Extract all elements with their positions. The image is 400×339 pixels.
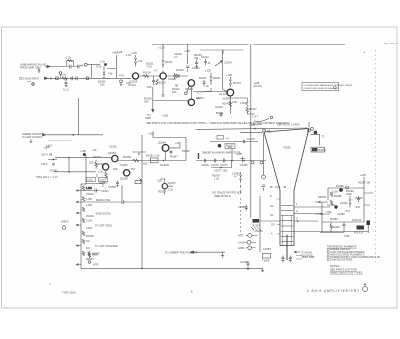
capacitor C21 [108,181,119,190]
small mark [364,51,366,55]
svg-text:SEE PARTS LIST FOR SEMICONDUCT: SEE PARTS LIST FOR SEMICONDUCTOR TYPES —… [146,121,290,125]
wire Q5 emitter down [229,96,231,114]
resistor R21 [133,159,139,162]
svg-text:C1040: C1040 [224,61,232,65]
ground [30,140,33,143]
svg-text:182: 182 [143,162,148,166]
misc label clutter crt [255,202,298,251]
wire rail dashes right [384,43,398,45]
wire Q5 branch right [230,98,247,101]
svg-text:R1080: R1080 [255,229,263,233]
svg-text:C1069: C1069 [201,163,209,167]
svg-text:C1022: C1022 [86,192,94,196]
diode CR2 [176,74,179,78]
svg-text:+105: +105 [275,185,281,189]
pin 1 [246,234,252,238]
svg-text:4C 91A: 4C 91A [219,92,228,96]
wire faint [48,139,71,141]
transistor Q6 [108,151,118,162]
small dot [50,284,51,285]
capacitor C30 [262,185,265,191]
svg-text:+225: +225 [117,50,123,54]
ground [38,69,41,73]
svg-text:1M: 1M [86,246,90,250]
svg-text:D1086: D1086 [336,184,344,188]
capacitor C22 [170,150,179,159]
svg-text:Z AXIS AMPLIFIER/CRT: Z AXIS AMPLIFIER/CRT [307,289,360,293]
wire neck right outputs [294,207,330,221]
svg-text:C1055: C1055 [108,185,116,189]
variable cap arrow [215,61,232,67]
resistor R2 bypass loop [66,56,73,67]
svg-text:R1089: R1089 [330,217,338,221]
pin labels [238,234,245,251]
svg-text:4.7k: 4.7k [119,74,125,78]
svg-text:NOTES:: NOTES: [330,264,340,268]
svg-text:1.2k: 1.2k [100,60,106,64]
node UNBLANKING PULSE input label [20,63,46,70]
resistor R22 [99,170,107,185]
wire stage1 vert [112,51,119,79]
resistor R41 above rail [88,251,100,263]
svg-text:C1071: C1071 [220,163,228,167]
focus box dark [354,226,364,235]
svg-text:Q1052: Q1052 [108,151,116,155]
svg-text:L1047: L1047 [240,101,248,105]
wire rail drop x163 [162,44,164,58]
node junction [297,220,299,222]
wire sub rail [200,49,244,51]
svg-text:4.7: 4.7 [234,175,238,179]
wire vert x153 upper [145,87,154,120]
wire main divider vert [80,184,82,268]
svg-text:4.7: 4.7 [174,55,178,59]
svg-text:NO TRACE ROTATE ADJ: NO TRACE ROTATE ADJ [212,191,242,195]
svg-text:SEMICONDUCTOR TYPES: SEMICONDUCTOR TYPES [330,271,363,275]
transistor Q5 [223,89,234,100]
node TP stage1 [120,80,131,86]
node dot cluster [46,148,57,166]
svg-text:GEOM: GEOM [318,195,326,199]
svg-text:C1085: C1085 [238,205,246,209]
capacitor C2 [78,65,79,69]
node junction [141,268,143,270]
wire lower seg [212,161,232,181]
wire geom long [293,231,368,233]
transistor Q3 [185,80,195,91]
svg-text:MOD 128F: MOD 128F [302,255,315,259]
wire Q10 leads [160,179,173,195]
node +125 label [226,73,232,77]
wire Q4 out right [196,123,308,129]
svg-text:FROM SWP GEN: FROM SWP GEN [20,66,41,70]
wire funnel left drop [263,134,265,176]
svg-text:CONDITIONS GIVEN ON DIAGRAM: CONDITIONS GIVEN ON DIAGRAM [304,87,338,90]
svg-text:GRID: GRID [238,246,245,250]
resistor R10 [134,55,143,67]
wire [139,75,160,77]
neck pin ticks [271,199,280,236]
capacitor C42 [244,137,256,144]
socket shield hatch [251,227,260,231]
wire x220 vert [223,50,227,92]
list items [330,247,381,261]
svg-text:C1059: C1059 [240,260,248,264]
node Z AXIS INPUT label [23,76,40,80]
svg-text:-1950 (DCPL): -1950 (DCPL) [95,212,111,216]
svg-text:4.7: 4.7 [226,137,230,141]
svg-text:G1: G1 [270,213,274,217]
resistor R25 boxed label [225,144,235,150]
svg-text:R1041: R1041 [213,76,221,80]
svg-text:R1053: R1053 [93,155,101,159]
svg-text:Q1064: Q1064 [158,141,166,145]
svg-text:R1079: R1079 [253,224,261,228]
resistor R23 [89,160,97,169]
svg-text:C1091: C1091 [340,201,348,205]
wire x69 link [68,157,70,173]
node blob right [314,131,318,135]
node +225 top [358,173,370,188]
node CRT label [283,146,291,150]
capacitor C40 [240,260,250,266]
pin 3 [246,246,252,250]
resistor RD5 [82,231,84,236]
stub wire y152 [132,152,146,155]
wire box links [86,174,107,190]
svg-text:R1045: R1045 [222,102,230,106]
pin 2 [246,240,251,244]
capacitor C11 [152,76,155,85]
dotted separator [375,50,377,265]
svg-text:GAIN ADJUSTERS: GAIN ADJUSTERS [330,258,353,262]
wire +225 row2 [148,132,186,161]
node tick [50,77,52,80]
svg-text:K: K [271,232,273,236]
svg-text:(SEE NOTE 4): (SEE NOTE 4) [214,194,231,198]
svg-text:B1059: B1059 [92,252,100,256]
svg-text:R1047: R1047 [88,180,95,182]
wire +225V rail [152,43,345,45]
svg-text:220k: 220k [346,192,352,196]
notes text [330,264,363,275]
graticule box [311,147,327,152]
wire rail drop x223 [222,50,224,54]
svg-text:R1061 1.2k: R1061 1.2k [146,154,160,158]
svg-text:+125: +125 [131,51,137,55]
SECTION: row2 long text [146,121,290,125]
wire row2 bus [118,160,186,162]
node TP5 [262,175,266,179]
svg-text:910: 910 [113,167,118,171]
svg-text:CATH: CATH [238,240,245,244]
node TP7 [62,226,66,230]
top boxes [87,178,108,182]
tap1 branch [81,189,109,194]
svg-text:Q1056: Q1056 [120,177,128,181]
svg-text:R1065: R1065 [182,149,190,153]
reference numbers heading [327,244,357,248]
ground [246,266,249,269]
wire vert x78 [77,98,79,135]
resistor RD2 [82,197,91,202]
svg-text:SWP: SWP [145,116,151,120]
resistor RD4 [82,218,91,223]
node +105 label [80,149,86,153]
node blob3 [367,221,370,234]
geometry box wires [328,188,364,222]
capacitor C14 [220,113,223,117]
svg-text:R1029: R1029 [176,68,184,72]
svg-text:C1076: C1076 [247,137,255,141]
misc label clutter row2 [92,141,190,174]
svg-text:R1058: R1058 [123,155,131,159]
transistor Q7 [96,162,109,170]
svg-text:.047: .047 [345,209,351,213]
svg-text:SEE NOTE 2 GRID: SEE NOTE 2 GRID [277,123,300,127]
svg-text:A 1.2: A 1.2 [63,88,69,92]
svg-text:G2: G2 [270,204,274,208]
diode dark [336,184,344,192]
resistor R5 pot cluster [97,60,117,79]
svg-text:1.2k: 1.2k [214,177,220,181]
svg-text:VOLTAGES AND WAVEFORMS OBTAINE: VOLTAGES AND WAVEFORMS OBTAINED UNDER [304,84,353,87]
ground [27,81,34,85]
svg-text:R1023 470k: R1023 470k [96,198,111,202]
svg-text:.01: .01 [207,61,211,65]
mod label [302,255,315,259]
svg-text:.001: .001 [130,167,136,171]
wire top connect [81,183,86,185]
svg-text:2.2M: 2.2M [86,219,92,223]
wire bottom rail [81,267,263,269]
resistor RD7 [82,251,84,256]
capacitor C45 [220,159,228,167]
component col mid [349,196,351,208]
resistor R16 [222,101,232,107]
node TP1 [79,63,100,66]
svg-text:1M: 1M [86,239,90,243]
resistor RD3 [82,207,84,212]
wire [55,157,111,159]
ground rail end [261,268,264,271]
left of funnel cluster [236,152,248,167]
capacitor C43 [201,159,209,167]
svg-text:2.2M: 2.2M [332,190,338,194]
svg-text:TRIG SIG 1 = 1.7V: TRIG SIG 1 = 1.7V [36,175,58,179]
wire corner to box [311,135,326,146]
svg-text:.047: .047 [355,205,361,209]
svg-text:+225: +225 [148,132,154,136]
geometry labels extra [326,194,361,222]
wire [44,77,131,79]
wire Q3-Q4 [190,86,192,99]
svg-text:100 V: 100 V [41,162,48,166]
svg-text:C1031: C1031 [192,66,200,70]
ground [221,252,224,258]
type label [62,291,76,295]
component col right [357,196,360,202]
resistor R4 [56,77,59,80]
svg-text:R1031: R1031 [199,76,207,80]
wire long +225 feed [250,44,252,218]
resistor R18 x211 [205,69,221,86]
svg-text:+105: +105 [80,149,86,153]
capacitor C44 [211,159,219,167]
node junction [163,160,164,161]
wire [203,88,211,92]
resistor RG1 [330,192,332,197]
svg-text:-1950V: -1950V [60,220,69,224]
top box part [217,136,230,141]
wire crt to geometry [315,202,330,214]
svg-text:18k: 18k [194,56,199,60]
capacitor C3b [76,76,77,80]
hv arrow label [294,250,313,257]
svg-text:TO CRT PLATES: TO CRT PLATES [22,135,42,139]
focus wire stub [364,193,373,205]
svg-text:(DCPL): (DCPL) [254,84,263,88]
svg-text:R1048: R1048 [100,180,107,182]
svg-text:R1095: R1095 [332,225,340,229]
svg-text:+225: +225 [360,173,366,177]
svg-text:FOCUS: FOCUS [354,231,363,235]
wire long vert x260 [259,196,261,252]
grid feed dashes [240,198,242,232]
tap 5 [76,244,118,248]
node +225 label right [254,81,263,88]
capacitor C1 [70,65,77,69]
svg-text:C1045: C1045 [215,105,223,109]
gun inner walls [283,215,291,245]
wire drop [91,65,93,79]
svg-text:910: 910 [108,72,113,76]
node labels lower left [196,96,224,115]
svg-text:Q1023: Q1023 [158,81,166,85]
capacitor C15 column [201,55,211,65]
svg-text:R1051: R1051 [50,168,58,172]
svg-text:1.5M: 1.5M [86,197,92,201]
ground [161,95,164,96]
svg-text:C1070: C1070 [211,163,219,167]
capacitor C4 to ground [63,78,69,91]
capacitor CG1 below [343,222,346,228]
resistor RD6 [82,239,89,244]
svg-text:R1067: R1067 [170,155,178,159]
node blob2 [327,203,338,209]
node circled B [20,77,22,79]
svg-text:4.7k: 4.7k [138,59,144,63]
svg-text:R1026: R1026 [86,214,94,218]
arrows [318,201,323,215]
sweep trig label [165,251,198,255]
svg-text:+22: +22 [92,148,97,152]
node TP4 [184,86,189,95]
node anode corner right [308,129,311,132]
svg-text:C1088: C1088 [327,203,335,207]
svg-text:C1083: C1083 [263,247,271,251]
wire [43,134,104,136]
tap 2 [76,201,81,203]
svg-text:R1031: R1031 [86,257,94,261]
misc label clutter geometry [318,190,361,239]
resistor R6 label [98,74,125,87]
anode cap marks [268,130,269,133]
transistor Q10 [157,179,176,194]
blanking label [202,150,241,154]
svg-text:+125: +125 [175,141,181,145]
transistor Q2 [158,73,166,85]
svg-text:910: 910 [172,90,177,94]
resistor R13 [147,79,158,89]
tap 3 [76,212,111,216]
node +105 mid [162,114,168,118]
svg-text:R1018: R1018 [143,71,151,75]
wire right corner up [308,122,310,127]
tap2 branch [81,198,141,204]
title [307,289,360,293]
svg-text:HTR: HTR [93,263,98,267]
svg-text:C1077 .005: C1077 .005 [214,169,228,173]
emblem [362,283,367,292]
svg-text:100 V: 100 V [41,153,48,157]
misc label clutter divider [86,192,94,261]
svg-text:470k: 470k [344,234,350,238]
svg-text:C1023: C1023 [168,77,176,81]
svg-text:910: 910 [89,161,94,165]
svg-text:C1014: C1014 [128,83,136,87]
wire stub y124 [252,123,262,125]
resistor R31 dark box [253,219,261,228]
node blob [218,144,222,148]
capacitor C46 neck left [238,205,248,211]
svg-text:+105: +105 [162,114,168,118]
svg-text:FOCUS: FOCUS [352,218,361,222]
capacitor C20 dark [83,153,86,156]
svg-text:+225: +225 [205,69,211,73]
label cluster row2 [93,155,136,171]
node TP circles [251,161,263,164]
svg-text:C1089: C1089 [337,212,345,216]
pin stub wires [251,236,258,248]
node TP8 [346,186,349,189]
resistor RG4 below [330,222,332,231]
wire [54,171,96,173]
capacitor C12 [186,66,200,72]
svg-text:1.2k: 1.2k [61,73,67,77]
wire [45,65,69,67]
tap 4 [76,224,112,228]
resistor R14 left of Q3 [173,73,178,86]
node TP6 [311,127,314,130]
resistor RD8 [88,252,99,257]
svg-text:+12: +12 [196,96,201,100]
resistor R15 [229,77,241,87]
wire beam arrow [252,115,273,122]
svg-text:C1042: C1042 [201,55,209,59]
wire [259,220,280,222]
svg-text:R1087 1M: R1087 1M [358,181,370,185]
svg-text:TYPE 310A: TYPE 310A [62,291,76,295]
resistor R11 [143,62,154,78]
svg-text:DL1060: DL1060 [160,163,170,167]
wire [247,112,255,115]
svg-text:1.2k: 1.2k [98,170,104,174]
svg-text:T1060: T1060 [262,259,270,263]
deflection plates rungs [281,206,293,242]
neck pin labels [270,194,274,217]
label small [46,143,52,147]
